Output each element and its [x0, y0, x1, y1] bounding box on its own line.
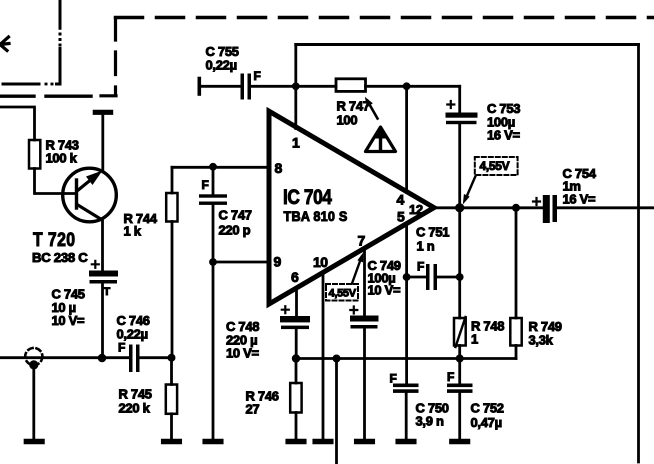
wire C746 to node [140, 356, 172, 359]
op-amp IC704 triangle [269, 111, 434, 304]
svg-text:100 k: 100 k [46, 151, 78, 166]
resistor R745 [170, 358, 173, 385]
svg-text:16 V=: 16 V= [563, 192, 597, 207]
svg-text:BC 238 C: BC 238 C [32, 250, 88, 265]
svg-text:10 V=: 10 V= [52, 313, 86, 328]
capacitor C752 [458, 359, 461, 384]
wire C748 to node [295, 329, 298, 358]
svg-text:10 V=: 10 V= [368, 283, 402, 298]
svg-text:1: 1 [471, 332, 478, 347]
resistor R747 [336, 79, 366, 92]
svg-text:IC 704: IC 704 [283, 186, 332, 209]
wire top feedback [296, 43, 639, 46]
wire C745 to input [101, 284, 104, 358]
svg-text:12: 12 [409, 202, 423, 217]
resistor R744 [166, 193, 177, 222]
svg-text:C 747: C 747 [219, 208, 252, 223]
wire pin 8 [172, 166, 269, 169]
capacitor C749 [350, 316, 379, 329]
ground jack [26, 439, 42, 445]
wire pin 6 [295, 288, 298, 316]
wire R748 to bottom wire [458, 346, 461, 359]
resistor R749 [515, 208, 518, 318]
wire R747 right [366, 85, 460, 88]
node R749 tee [512, 204, 520, 212]
svg-text:0,22µ: 0,22µ [206, 58, 237, 73]
voltage box 4.55V bottom [326, 284, 358, 301]
wire pin 1 [294, 86, 297, 128]
wire pin 10 [322, 273, 325, 438]
ground C752 [452, 439, 468, 445]
capacitor C746 [129, 345, 140, 373]
node pin5-C751 [403, 273, 411, 281]
svg-text:T 720: T 720 [33, 230, 76, 251]
wire bottom rail [296, 357, 516, 360]
shield dashed line y96 [0, 94, 91, 97]
svg-text:7: 7 [358, 233, 366, 249]
wire pin 4 [405, 86, 408, 192]
svg-text:8: 8 [275, 160, 283, 176]
capacitor C754 [533, 198, 540, 205]
svg-text:220 k: 220 k [119, 401, 151, 416]
wire C753 to output node [458, 124, 461, 208]
node pin8-C747 [209, 163, 217, 171]
wire bottom tap down [335, 359, 338, 464]
svg-text:0,47µ: 0,47µ [471, 415, 502, 430]
wire output node down [458, 208, 461, 277]
node emitter-input junction [98, 354, 107, 363]
node bottom tap [333, 355, 341, 363]
node pin9-C747 [209, 258, 217, 266]
node pin4 tee [403, 82, 411, 90]
wire jack to ground [32, 365, 35, 438]
node C751 right [456, 273, 464, 281]
capacitor C750 [393, 384, 419, 393]
svg-text:4: 4 [397, 192, 405, 208]
capacitor C751 [407, 276, 426, 279]
svg-text:10 V=: 10 V= [226, 346, 260, 361]
svg-text:F: F [447, 370, 454, 384]
transistor T720 [63, 168, 117, 222]
collector terminal T bar [95, 110, 110, 115]
shield dotted vertical line [59, 0, 62, 84]
svg-text:1: 1 [292, 135, 300, 151]
wire C749 to ground [363, 329, 366, 439]
wire pin 5 / C750 chain [405, 224, 408, 384]
capacitor C745 [89, 271, 118, 284]
wire emitter [101, 220, 104, 271]
svg-text:0,22µ: 0,22µ [117, 327, 148, 342]
svg-text:R 747: R 747 [337, 99, 370, 114]
wire input left [0, 356, 129, 359]
wire R744 to node [171, 222, 174, 358]
svg-text:F: F [202, 178, 209, 192]
warning triangle [366, 127, 396, 152]
node R748-C752 [456, 355, 464, 363]
capacitor C748 [280, 316, 310, 329]
node C748-R746 [292, 354, 300, 362]
resistor R743 [29, 140, 40, 169]
svg-text:1 k: 1 k [124, 224, 142, 239]
svg-text:3,9 n: 3,9 n [416, 414, 444, 429]
wire R743 to base [35, 169, 75, 194]
node R744-R745 [168, 354, 176, 362]
svg-text:4,55V: 4,55V [329, 288, 357, 300]
svg-text:5: 5 [397, 209, 405, 225]
capacitor C755 [198, 79, 202, 95]
svg-text:F: F [390, 372, 397, 386]
svg-text:T: T [104, 286, 111, 298]
svg-text:10: 10 [313, 254, 328, 270]
node output [455, 203, 464, 212]
svg-text:27: 27 [246, 402, 260, 417]
svg-text:C 751: C 751 [416, 225, 449, 240]
capacitor C747 [212, 167, 215, 194]
wire collector [101, 113, 104, 171]
resistor R746 [295, 359, 298, 384]
svg-text:C 752: C 752 [471, 401, 504, 416]
svg-text:9: 9 [274, 254, 282, 270]
ground R746 [288, 439, 304, 445]
resistor R748 [454, 318, 466, 346]
svg-text:F: F [254, 69, 261, 83]
svg-text:6: 6 [291, 269, 299, 285]
wire junction up [294, 45, 297, 87]
wire to R748 [458, 277, 461, 318]
ground C747 [205, 439, 221, 445]
ground pin10 [315, 439, 331, 445]
capacitor C753 [446, 113, 478, 125]
node C755 junction [292, 82, 300, 90]
wire base top-left [0, 107, 35, 140]
wire right vertical [637, 45, 640, 463]
shield dashed line top [116, 16, 654, 20]
svg-text:3,3k: 3,3k [529, 333, 554, 348]
svg-text:F: F [417, 260, 424, 274]
svg-text:4,55V: 4,55V [480, 159, 510, 173]
wire pin 7 [363, 249, 366, 316]
ground C750 [398, 439, 414, 445]
voltage box 4.55V right [475, 157, 518, 175]
input jack [25, 348, 42, 365]
svg-text:220 p: 220 p [219, 223, 251, 238]
svg-text:R 745: R 745 [119, 387, 152, 402]
wire C747 to ground [212, 262, 215, 438]
wire pin 9 [213, 261, 269, 264]
svg-text:1 n: 1 n [417, 239, 435, 254]
arrow R747 adjust [368, 101, 378, 119]
svg-text:100: 100 [337, 113, 358, 128]
wire C753 top corner [458, 86, 461, 112]
svg-text:TBA 810 S: TBA 810 S [284, 209, 348, 224]
wire pin8 corner down [171, 167, 174, 193]
wire junction to R747 [296, 85, 336, 88]
shield dashed corner vertical [101, 19, 116, 96]
chevron symbol left edge [0, 37, 9, 51]
shield dashed line y84 [3, 83, 60, 86]
wire output [434, 206, 543, 209]
ground C749 [357, 439, 373, 445]
svg-text:16 V=: 16 V= [487, 128, 521, 143]
ground R745 [164, 439, 180, 445]
svg-text:F: F [118, 341, 125, 355]
